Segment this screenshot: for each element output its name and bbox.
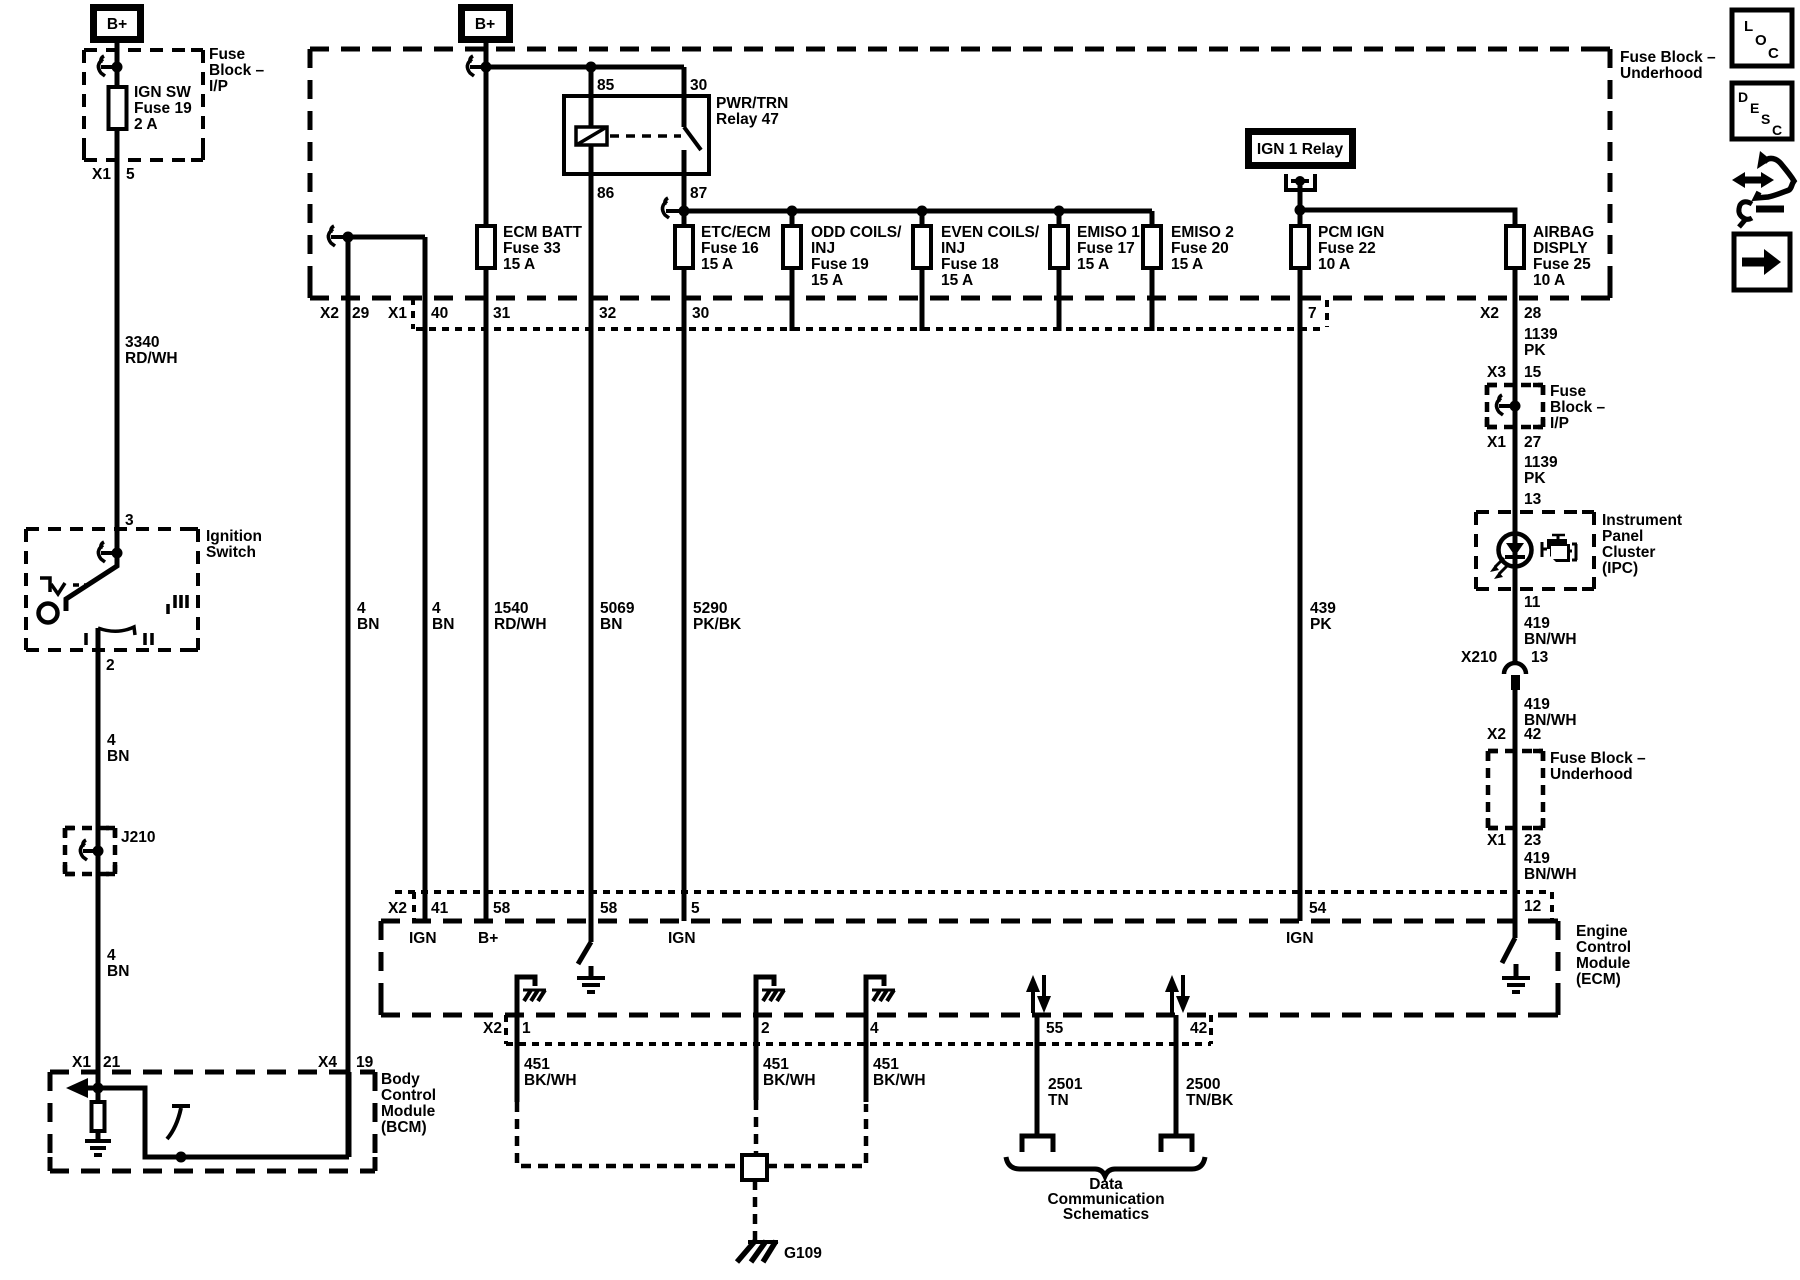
B+ terminal 2 (458, 4, 513, 43)
ECM top pin row dotted line (395, 890, 1552, 894)
pin labels X4 19 (318, 1054, 374, 1071)
svg-text:55: 55 (1046, 1020, 1064, 1037)
wire fuse feed horizontal (684, 209, 1152, 214)
svg-text:Fuse: Fuse (1550, 383, 1587, 400)
svg-text:E: E (1750, 100, 1759, 116)
BCM switch (167, 1106, 190, 1163)
svg-text:B+: B+ (107, 16, 127, 33)
wire label 2501 TN (1048, 1076, 1083, 1109)
svg-text:Underhood: Underhood (1620, 65, 1703, 82)
wire X4 19 inside BCM (347, 1072, 352, 1157)
svg-text:L: L (1744, 18, 1753, 35)
wire 451 BK/WH pin 4 (864, 1044, 869, 1102)
wire label 419 BN/WH second (1524, 696, 1577, 729)
svg-text:EMISO 1: EMISO 1 (1077, 224, 1140, 241)
svg-text:PK/BK: PK/BK (693, 616, 742, 633)
node B+ feed junction (481, 62, 492, 73)
svg-text:Underhood: Underhood (1550, 766, 1633, 783)
wire label 4 BN (107, 732, 129, 765)
svg-text:BN: BN (107, 748, 129, 765)
svg-text:Fuse Block –: Fuse Block – (1550, 750, 1646, 767)
ECM bottom pin row dotted line (506, 1042, 1211, 1046)
svg-text:5: 5 (691, 900, 700, 917)
svg-text:13: 13 (1524, 491, 1542, 508)
node ODD fuse tap (787, 206, 798, 217)
ODD fuse label (811, 224, 902, 289)
wire label 2500 TN/BK (1186, 1076, 1234, 1109)
svg-text:15: 15 (1524, 364, 1542, 381)
svg-text:PK: PK (1310, 616, 1332, 633)
svg-text:BN/WH: BN/WH (1524, 631, 1577, 648)
svg-text:PCM IGN: PCM IGN (1318, 224, 1384, 241)
switch wiper arc positions I II (86, 627, 152, 645)
wire label 1540 RD/WH (494, 600, 547, 633)
relay PWR/TRN box (564, 96, 709, 174)
svg-text:41: 41 (431, 900, 449, 917)
fuse F19 IGN SW 2A (109, 87, 127, 129)
connector symbol at fuse 19 input (98, 56, 122, 76)
wire pin 40 down to ECM (4 BN) (423, 237, 428, 921)
svg-text:C: C (1768, 45, 1779, 62)
svg-text:X1: X1 (1487, 434, 1506, 451)
data communication brace (1006, 1157, 1205, 1176)
BCM ground (85, 1141, 111, 1155)
svg-text:28: 28 (1524, 305, 1542, 322)
BCM resistor (92, 1088, 105, 1141)
body control module dashed box (50, 1072, 375, 1171)
wire label 419 BN/WH third (1524, 850, 1577, 883)
ECM signal ground at pin 58 (577, 966, 605, 992)
wire label 4 BN (pin 40) (432, 600, 454, 633)
svg-text:30: 30 (690, 77, 707, 94)
relay switch blade (684, 127, 701, 150)
svg-text:Module: Module (381, 1103, 436, 1120)
svg-text:C: C (1772, 122, 1782, 138)
svg-text:419: 419 (1524, 850, 1550, 867)
svg-text:ECM BATT: ECM BATT (503, 224, 582, 241)
fuse block I/P dashed box (84, 50, 203, 160)
instrument panel cluster dashed box (1476, 512, 1594, 589)
wire IGN 1 relay to junction (1298, 181, 1303, 210)
svg-text:10 A: 10 A (1318, 256, 1350, 273)
wire feed stubs to fuses (684, 211, 1152, 226)
svg-text:40: 40 (431, 305, 448, 322)
wire label 451 BK/WH 2 (763, 1056, 816, 1089)
svg-text:54: 54 (1309, 900, 1327, 917)
svg-text:RD/WH: RD/WH (494, 616, 547, 633)
svg-text:X210: X210 (1461, 649, 1497, 666)
svg-text:5290: 5290 (693, 600, 727, 617)
connector symbol in ignition switch (98, 542, 122, 562)
svg-text:X1: X1 (72, 1054, 91, 1071)
svg-text:419: 419 (1524, 615, 1550, 632)
connector symbol at underhood left branch (328, 226, 348, 246)
svg-text:15 A: 15 A (1077, 256, 1109, 273)
wire label 451 BK/WH 3 (873, 1056, 926, 1089)
wire 451 BK/WH pin 2 (754, 1044, 759, 1100)
IPC engine MIL icon (1542, 535, 1577, 562)
svg-text:Fuse 20: Fuse 20 (1171, 240, 1229, 257)
svg-text:3340: 3340 (125, 334, 159, 351)
svg-text:X3: X3 (1487, 364, 1506, 381)
relay contact 87 stub (682, 150, 687, 174)
svg-text:B+: B+ (478, 930, 498, 947)
node EVEN fuse tap (917, 206, 928, 217)
wire label 5290 PK/BK (693, 600, 742, 633)
fuse F25 AIRBAG DISPLY (1506, 226, 1524, 268)
wire PCM IGN fuse down (439 PK) (1298, 267, 1303, 921)
fuse F33 ECM BATT (477, 226, 495, 268)
BCM label (381, 1071, 436, 1136)
fuse block I/P right label (1550, 383, 1606, 432)
wire branch horizontal to pin 40 (348, 235, 425, 240)
wire ODD fuse stub (790, 267, 795, 331)
svg-text:(ECM): (ECM) (1576, 971, 1621, 988)
node EMISO1 fuse tap (1054, 206, 1065, 217)
quick link arrows icon (1732, 151, 1794, 227)
svg-text:X1: X1 (388, 305, 407, 322)
svg-text:4: 4 (870, 1020, 879, 1037)
relay coil-contact dashed link (610, 134, 681, 138)
wire label 1139 PK lower (1524, 454, 1558, 487)
svg-text:451: 451 (524, 1056, 550, 1073)
wire fuse 19 to ignition switch (3340 RD/WH) (115, 129, 120, 556)
svg-text:IGN SW: IGN SW (134, 84, 191, 101)
svg-text:AIRBAG: AIRBAG (1533, 224, 1594, 241)
node underhood left branch junction (343, 232, 354, 243)
IPC indicator lamp (1490, 534, 1532, 580)
fuse F17 EMISO 1 (1050, 226, 1068, 268)
node IGN feed junction (1295, 205, 1306, 216)
svg-text:Fuse 25: Fuse 25 (1533, 256, 1591, 273)
svg-text:DISPLY: DISPLY (1533, 240, 1588, 257)
wire 2500 TN/BK pin 42 (1174, 1015, 1179, 1136)
connector symbol at fuse feed (662, 198, 684, 218)
fuse F19 ODD COILS/INJ (783, 226, 801, 268)
connector symbol below IGN 1 Relay (1286, 174, 1315, 190)
EMISO 2 fuse label (1171, 224, 1234, 273)
ECM chassis ground 1 (517, 977, 546, 1044)
svg-text:I/P: I/P (1550, 415, 1569, 432)
fuse F18 EVEN COILS/INJ (913, 226, 931, 268)
svg-text:4: 4 (357, 600, 366, 617)
svg-text:87: 87 (690, 185, 707, 202)
svg-text:15 A: 15 A (701, 256, 733, 273)
wire label 4 BN lower (107, 947, 129, 980)
svg-text:7: 7 (1308, 305, 1317, 322)
svg-text:TN/BK: TN/BK (1186, 1092, 1234, 1109)
position III mark (168, 595, 187, 614)
svg-text:Panel: Panel (1602, 528, 1643, 545)
engine control module dashed box (381, 921, 1558, 1015)
svg-text:21: 21 (103, 1054, 121, 1071)
svg-text:10 A: 10 A (1533, 272, 1565, 289)
fuse block I/P right dashed box (1487, 385, 1543, 427)
svg-text:13: 13 (1531, 649, 1549, 666)
svg-text:1: 1 (522, 1020, 531, 1037)
svg-text:29: 29 (352, 305, 370, 322)
svg-text:32: 32 (599, 305, 616, 322)
svg-text:BN: BN (432, 616, 454, 633)
pin labels X3 15 (1487, 364, 1542, 381)
wire relay pin 86 down (5069 BN) (589, 145, 594, 942)
svg-text:PK: PK (1524, 342, 1546, 359)
wire EVEN fuse stub (920, 267, 925, 331)
pin labels X1 23 (1487, 832, 1542, 849)
svg-text:EVEN COILS/: EVEN COILS/ (941, 224, 1040, 241)
pin labels 85 30 (597, 77, 707, 94)
off-page connector 2501 (1022, 1136, 1053, 1152)
wire to relay pin 30 (682, 67, 687, 127)
svg-text:B+: B+ (475, 16, 495, 33)
svg-text:Control: Control (381, 1087, 436, 1104)
ECM BATT fuse label (503, 224, 582, 273)
svg-text:Fuse 18: Fuse 18 (941, 256, 999, 273)
wire AIRBAG fuse down (1139 PK) (1513, 267, 1518, 938)
pin row dotted line (416, 327, 1325, 331)
splice J210 dashed box (65, 828, 115, 874)
wire B+ to fuse 19 (115, 43, 120, 87)
svg-text:X2: X2 (1487, 726, 1506, 743)
svg-text:ODD COILS/: ODD COILS/ (811, 224, 902, 241)
svg-text:INJ: INJ (941, 240, 965, 257)
ECM top pin row separators (414, 892, 1552, 921)
svg-text:Fuse 19: Fuse 19 (811, 256, 869, 273)
svg-text:X2: X2 (483, 1020, 502, 1037)
svg-text:X4: X4 (318, 1054, 337, 1071)
fuse F16 ETC/ECM (675, 226, 693, 268)
next page arrow icon box (1734, 234, 1790, 290)
svg-text:1139: 1139 (1524, 326, 1558, 343)
wire relay pin 87 down to fuse feed (682, 174, 687, 211)
svg-text:X2: X2 (388, 900, 407, 917)
pin row labels under fuse block underhood (320, 305, 1542, 322)
fuse block I/P label (209, 46, 265, 95)
ECM signal ground at pin 12 (1502, 964, 1530, 992)
wire label 439 PK (1310, 600, 1336, 633)
ETC/ECM fuse label (701, 224, 771, 273)
ECM chassis ground 3 (866, 977, 895, 1044)
svg-text:5069: 5069 (600, 600, 635, 617)
BCM internal wire to switch (98, 1088, 349, 1157)
connector X210 symbol (1504, 663, 1526, 690)
svg-text:15 A: 15 A (811, 272, 843, 289)
svg-text:IGN: IGN (409, 930, 437, 947)
svg-text:PK: PK (1524, 470, 1546, 487)
EVEN fuse label (941, 224, 1040, 289)
svg-text:Fuse 17: Fuse 17 (1077, 240, 1135, 257)
svg-text:PWR/TRN: PWR/TRN (716, 95, 788, 112)
ECM label (1576, 923, 1631, 988)
svg-text:31: 31 (493, 305, 511, 322)
svg-text:42: 42 (1524, 726, 1541, 743)
svg-text:Fuse: Fuse (209, 46, 246, 63)
connector symbol in I/P block (1496, 395, 1520, 415)
relay coil (576, 96, 607, 145)
ECM bottom pin labels (483, 1020, 1207, 1037)
wire ECM BATT fuse to ECM (1540 RD/WH) (484, 267, 489, 921)
data communication label (1047, 1176, 1164, 1223)
wire ignition switch to J210 (4 BN) (96, 628, 101, 851)
fuse F22 PCM IGN (1291, 226, 1309, 268)
relay name label (716, 95, 788, 128)
ECM internal blade at pin 58 (578, 942, 591, 964)
wire ETC/ECM fuse down (5290 PK/BK) (682, 267, 687, 921)
svg-text:EMISO 2: EMISO 2 (1171, 224, 1234, 241)
svg-text:Cluster: Cluster (1602, 544, 1655, 561)
svg-text:O: O (1755, 32, 1767, 49)
svg-text:23: 23 (1524, 832, 1542, 849)
svg-text:27: 27 (1524, 434, 1541, 451)
ignition switch pivot circle (39, 604, 58, 623)
svg-text:BN/WH: BN/WH (1524, 866, 1577, 883)
svg-text:19: 19 (356, 1054, 374, 1071)
wire label 4 BN (pin 29) (357, 600, 379, 633)
svg-text:J210: J210 (121, 829, 155, 846)
svg-text:X1: X1 (1487, 832, 1506, 849)
node pin 87 feed junction (679, 206, 690, 217)
LOC icon box (1732, 10, 1792, 66)
pin labels X1 27 (1487, 434, 1541, 451)
svg-text:2501: 2501 (1048, 1076, 1083, 1093)
node relay pin 85 junction (586, 62, 597, 73)
ground G109 (737, 1241, 822, 1262)
svg-text:58: 58 (493, 900, 511, 917)
svg-text:1139: 1139 (1524, 454, 1558, 471)
wire IGN feed horizontal to AIRBAG fuse (1300, 210, 1515, 226)
svg-text:2: 2 (761, 1020, 770, 1037)
svg-text:Engine: Engine (1576, 923, 1628, 940)
fuse block underhood right dashed box (1488, 751, 1543, 828)
svg-text:3: 3 (125, 512, 134, 529)
svg-text:15 A: 15 A (503, 256, 535, 273)
pin row dotted separators (413, 298, 1327, 329)
svg-text:2 A: 2 A (134, 116, 158, 133)
svg-text:5: 5 (126, 166, 135, 183)
IPC label (1602, 512, 1682, 577)
pin labels X2 42 (1487, 726, 1541, 743)
B+ terminal 1 (90, 4, 144, 43)
svg-text:42: 42 (1190, 1020, 1207, 1037)
svg-text:(BCM): (BCM) (381, 1119, 427, 1136)
off-page connector 2500 (1161, 1136, 1192, 1152)
wire label 5069 BN (600, 600, 635, 633)
svg-text:Fuse 22: Fuse 22 (1318, 240, 1376, 257)
svg-text:86: 86 (597, 185, 615, 202)
PCM IGN fuse label (1318, 224, 1384, 273)
svg-text:Fuse Block –: Fuse Block – (1620, 49, 1716, 66)
wire label 1139 PK upper (1524, 326, 1558, 359)
svg-text:85: 85 (597, 77, 615, 94)
wire to relay pin 85 (589, 67, 594, 96)
svg-text:4: 4 (107, 732, 116, 749)
svg-text:Ignition: Ignition (206, 528, 262, 545)
ECM chassis ground 2 (756, 977, 785, 1044)
BCM left arrow (66, 1078, 98, 1098)
svg-text:BN: BN (600, 616, 622, 633)
ignition switch dashed box (26, 529, 198, 650)
svg-text:Module: Module (1576, 955, 1631, 972)
dashed wire to G109 (753, 1180, 758, 1240)
svg-text:Body: Body (381, 1071, 420, 1088)
EMISO 1 fuse label (1077, 224, 1140, 273)
svg-text:X2: X2 (1480, 305, 1499, 322)
ECM serial data arrows pin 42 (1165, 975, 1190, 1013)
ECM top pin labels (388, 900, 1327, 917)
ignition switch label (206, 528, 262, 561)
wire label 419 BN/WH first (1524, 615, 1577, 648)
svg-text:1540: 1540 (494, 600, 528, 617)
svg-text:Fuse 16: Fuse 16 (701, 240, 759, 257)
node BCM pin 21 junction (93, 1083, 104, 1094)
svg-text:15 A: 15 A (1171, 256, 1203, 273)
pin labels X1 21 (72, 1054, 121, 1071)
svg-text:Block –: Block – (209, 62, 265, 79)
svg-text:Block –: Block – (1550, 399, 1606, 416)
svg-text:Instrument: Instrument (1602, 512, 1682, 529)
ECM bottom pin row separators (506, 1015, 1211, 1044)
wire pin 29 down to BCM (4 BN) (346, 237, 351, 1157)
connector symbol at B+ feed (467, 56, 486, 76)
svg-text:419: 419 (1524, 696, 1550, 713)
svg-text:Control: Control (1576, 939, 1631, 956)
ECM serial data arrows pin 55 (1026, 975, 1051, 1013)
wire EMISO2 fuse stub (1150, 267, 1155, 331)
svg-text:(IPC): (IPC) (1602, 560, 1638, 577)
AIRBAG fuse label (1533, 224, 1594, 289)
fuse block underhood dashed box (310, 49, 1610, 298)
svg-text:Schematics: Schematics (1063, 1206, 1149, 1223)
IGN 1 Relay label box (1245, 128, 1356, 169)
ignition switch blade (66, 550, 117, 611)
fuse F20 EMISO 2 (1143, 226, 1161, 268)
fuse 19 label (134, 84, 192, 133)
wire B+ 2 down to ECM BATT fuse (484, 43, 489, 226)
svg-text:BK/WH: BK/WH (524, 1072, 577, 1089)
svg-text:ETC/ECM: ETC/ECM (701, 224, 771, 241)
svg-text:IGN: IGN (668, 930, 696, 947)
svg-text:2: 2 (106, 657, 115, 674)
svg-text:439: 439 (1310, 600, 1336, 617)
svg-text:Fuse 19: Fuse 19 (134, 100, 192, 117)
position IV mark (40, 578, 88, 594)
svg-text:X2: X2 (320, 305, 339, 322)
svg-text:2500: 2500 (1186, 1076, 1220, 1093)
svg-text:Relay 47: Relay 47 (716, 111, 779, 128)
svg-text:IGN 1 Relay: IGN 1 Relay (1257, 141, 1344, 158)
ECM pin function labels (409, 930, 1314, 947)
svg-text:451: 451 (763, 1056, 789, 1073)
svg-text:11: 11 (1524, 594, 1541, 611)
svg-text:TN: TN (1048, 1092, 1069, 1109)
wire label 451 BK/WH 1 (524, 1056, 577, 1089)
svg-text:58: 58 (600, 900, 618, 917)
svg-text:S: S (1761, 111, 1770, 127)
DESC icon box (1732, 83, 1792, 139)
svg-text:BN: BN (357, 616, 379, 633)
fuse block underhood label (1620, 49, 1716, 82)
wire B+ feed horizontal (486, 65, 684, 70)
svg-text:INJ: INJ (811, 240, 835, 257)
svg-text:4: 4 (432, 600, 441, 617)
wire 451 BK/WH pin 1 (515, 1044, 520, 1102)
wire 2501 TN pin 55 (1035, 1015, 1040, 1136)
svg-text:I/P: I/P (209, 78, 228, 95)
svg-text:BK/WH: BK/WH (873, 1072, 926, 1089)
ground splice dashed box (517, 1100, 866, 1166)
svg-text:X1: X1 (92, 166, 111, 183)
pin labels X1 5 (92, 166, 135, 183)
